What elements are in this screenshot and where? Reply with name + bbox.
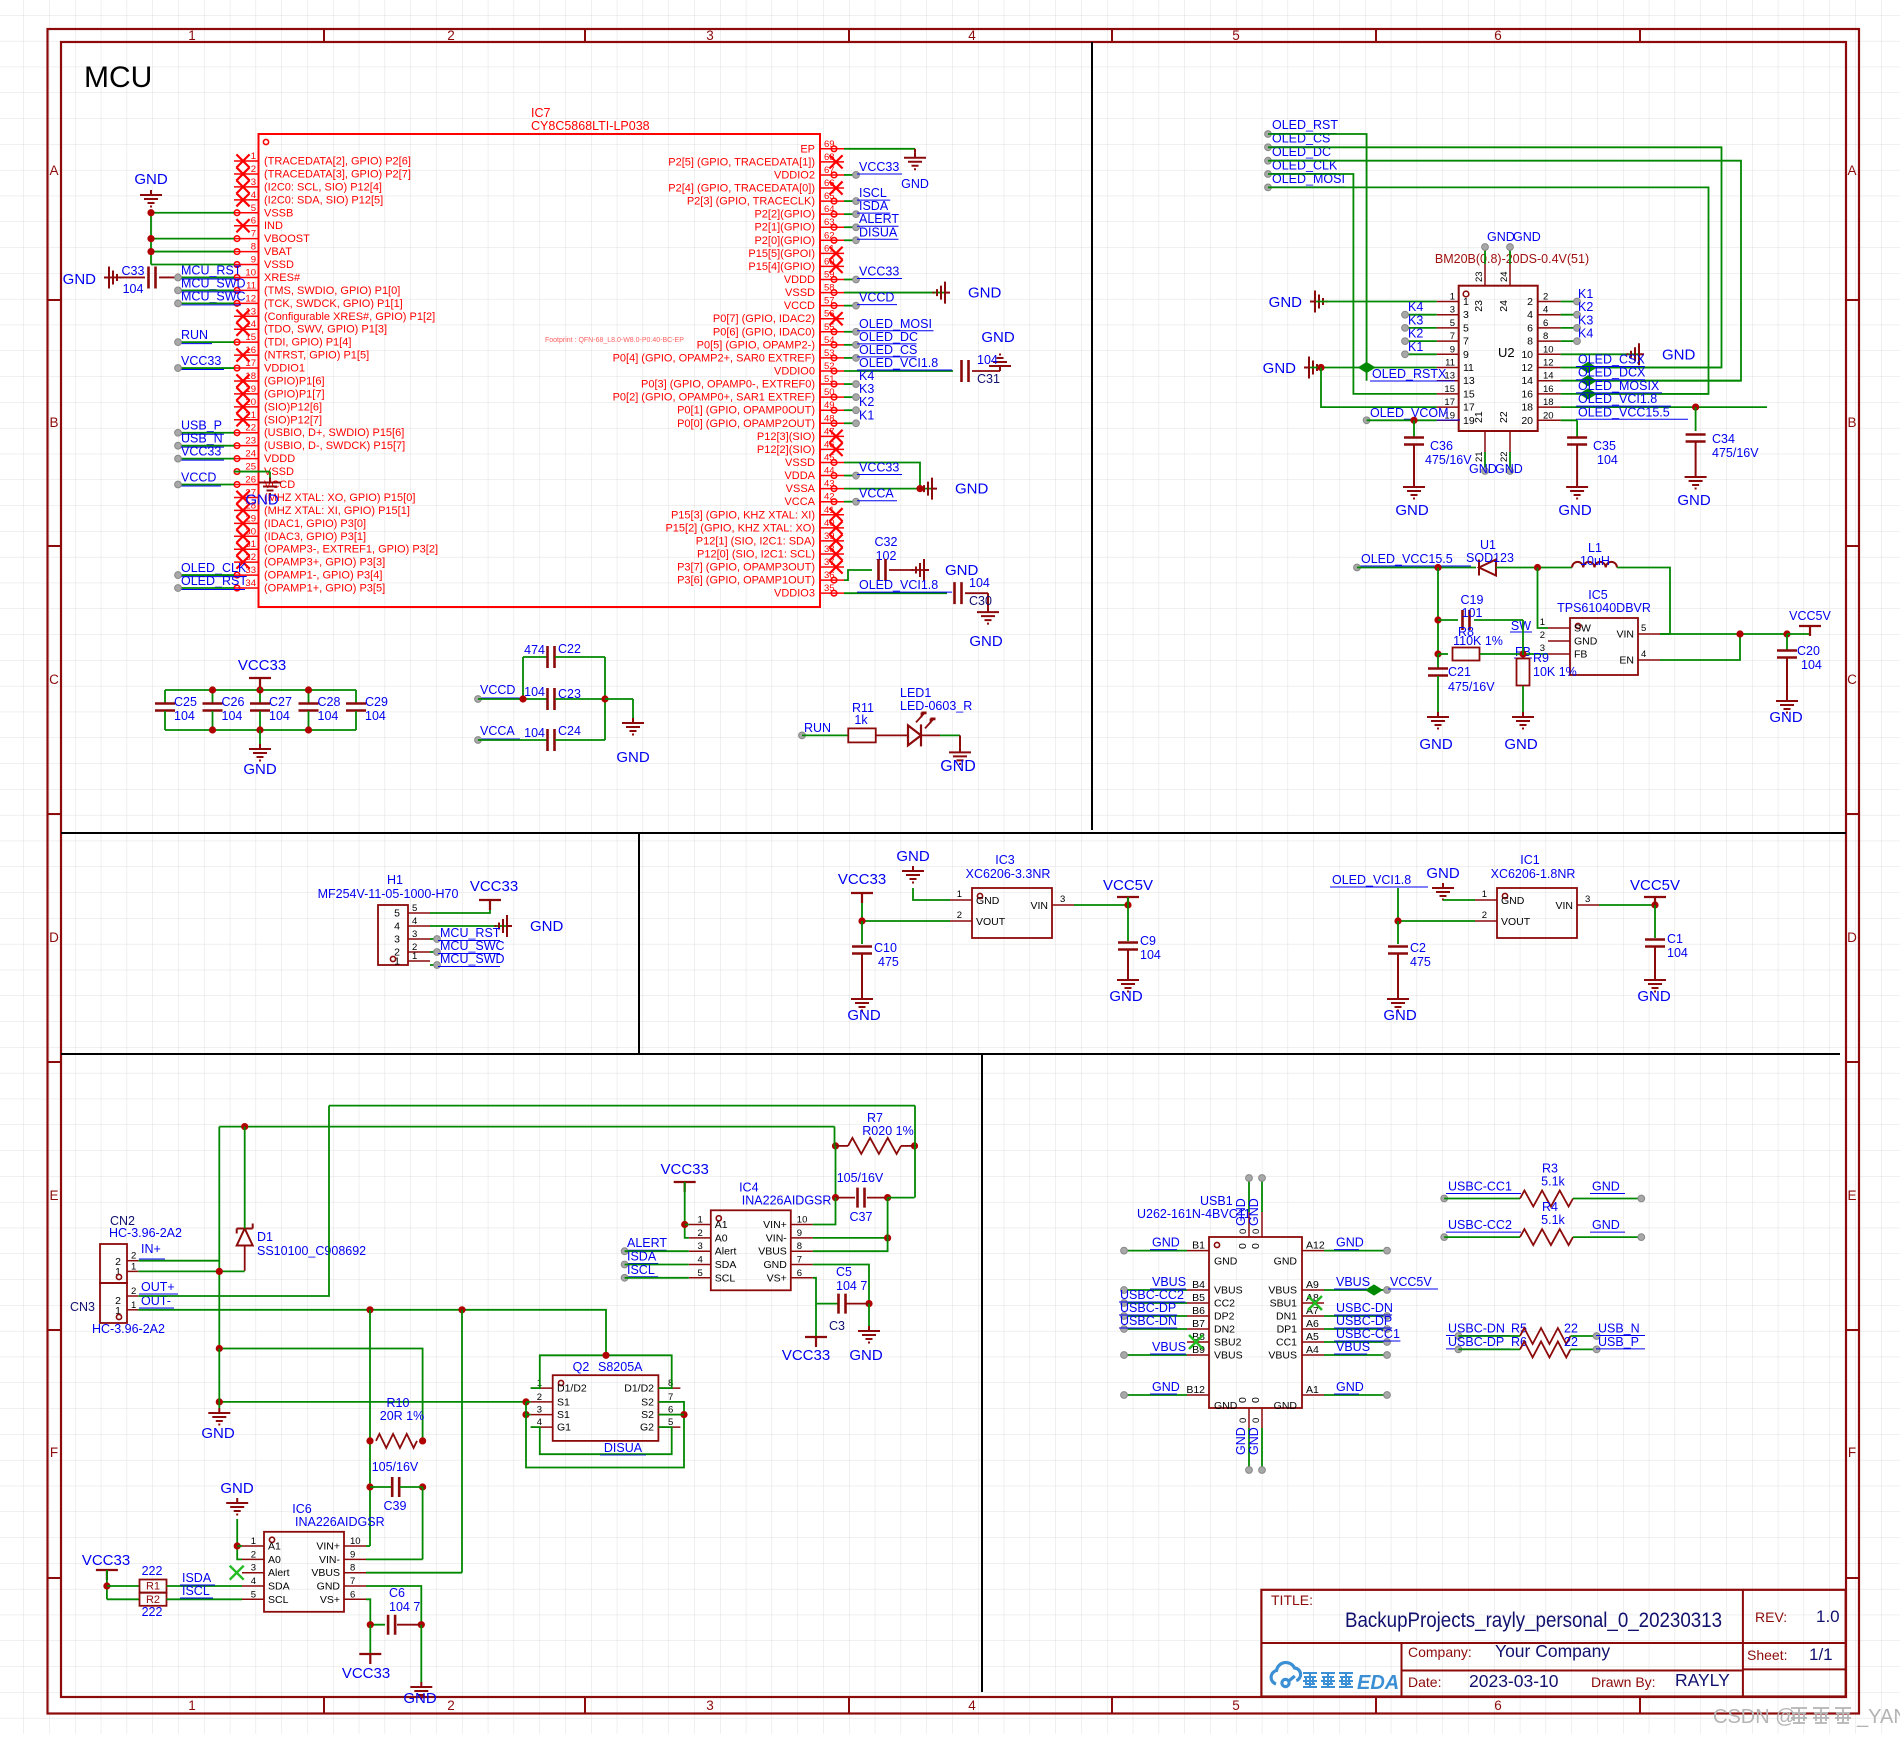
svg-text:B4: B4 (1192, 1279, 1205, 1291)
svg-text:104: 104 (977, 353, 998, 367)
svg-text:R4: R4 (1542, 1200, 1558, 1214)
svg-text:GND: GND (1419, 736, 1453, 753)
svg-text:VBUS: VBUS (758, 1246, 787, 1258)
svg-text:54: 54 (824, 335, 835, 346)
svg-text:IN+: IN+ (141, 1242, 161, 1256)
svg-text:15: 15 (1444, 384, 1455, 395)
svg-text:K2: K2 (1578, 300, 1593, 314)
svg-text:VCCA: VCCA (784, 496, 815, 508)
svg-text:OLED_CS: OLED_CS (859, 343, 917, 357)
svg-text:VCCD: VCCD (480, 683, 515, 697)
svg-text:20: 20 (1521, 415, 1533, 427)
svg-text:(OPAMP1-, GPIO) P3[4]: (OPAMP1-, GPIO) P3[4] (264, 570, 382, 582)
svg-text:13: 13 (1463, 375, 1475, 387)
svg-text:8: 8 (1543, 331, 1548, 342)
svg-text:59: 59 (824, 270, 835, 281)
svg-text:OLED_VCC15.5: OLED_VCC15.5 (1361, 552, 1453, 566)
svg-text:C1: C1 (1667, 932, 1683, 946)
svg-text:XRES#: XRES# (264, 272, 301, 284)
svg-text:9: 9 (1463, 349, 1469, 361)
svg-text:22: 22 (1564, 1335, 1578, 1349)
svg-text:TPS61040DBVR: TPS61040DBVR (1557, 601, 1651, 615)
svg-text:C35: C35 (1593, 439, 1616, 453)
svg-text:GND: GND (1274, 1400, 1298, 1412)
svg-text:RAYLY: RAYLY (1675, 1670, 1730, 1690)
svg-text:HC-3.96-2A2: HC-3.96-2A2 (109, 1226, 182, 1240)
svg-text:P0[0] (GPIO, OPAMP2OUT): P0[0] (GPIO, OPAMP2OUT) (677, 418, 815, 430)
svg-text:44: 44 (824, 466, 835, 477)
svg-text:5: 5 (698, 1268, 703, 1279)
svg-text:0: 0 (1251, 1418, 1262, 1423)
svg-text:GND: GND (1109, 988, 1143, 1005)
svg-text:18: 18 (1521, 402, 1533, 414)
svg-text:14: 14 (1543, 371, 1554, 382)
svg-text:VCC5V: VCC5V (1390, 1275, 1432, 1289)
svg-text:R9: R9 (1533, 651, 1549, 665)
svg-text:104: 104 (524, 726, 545, 740)
svg-text:GND: GND (1263, 360, 1297, 377)
svg-text:VCC33: VCC33 (181, 354, 221, 368)
svg-text:7: 7 (797, 1255, 802, 1266)
svg-text:P15[5](GPOI): P15[5](GPOI) (748, 248, 815, 260)
svg-text:XC6206-1.8NR: XC6206-1.8NR (1491, 867, 1576, 881)
svg-text:B5: B5 (1192, 1292, 1205, 1304)
svg-text:A1: A1 (1306, 1384, 1319, 1396)
svg-text:S2: S2 (641, 1396, 654, 1408)
svg-text:VIN+: VIN+ (316, 1541, 340, 1553)
svg-text:K4: K4 (1578, 327, 1593, 341)
svg-text:5: 5 (251, 203, 256, 214)
svg-text:MCU_RST: MCU_RST (440, 926, 501, 940)
svg-text:12: 12 (245, 293, 256, 304)
svg-text:P15[4](GPIO): P15[4](GPIO) (748, 261, 815, 273)
svg-text:GND: GND (968, 285, 1002, 302)
svg-text:B12: B12 (1186, 1384, 1205, 1396)
svg-text:Company:: Company: (1408, 1644, 1472, 1660)
svg-text:P2[2](GPIO): P2[2](GPIO) (754, 209, 815, 221)
svg-text:VDDIO0: VDDIO0 (774, 365, 815, 377)
svg-text:USB1: USB1 (1200, 1194, 1233, 1208)
svg-text:2: 2 (447, 1698, 455, 1713)
svg-text:5.1k: 5.1k (1541, 1213, 1565, 1227)
svg-text:D: D (49, 930, 59, 945)
svg-text:1: 1 (412, 951, 417, 962)
svg-text:DP2: DP2 (1214, 1311, 1235, 1323)
svg-text:475: 475 (878, 955, 899, 969)
svg-text:OLED_RSTX: OLED_RSTX (1372, 367, 1447, 381)
svg-text:VCCD: VCCD (181, 471, 216, 485)
svg-text:GND: GND (955, 481, 989, 498)
svg-text:VCC33: VCC33 (782, 1347, 830, 1364)
svg-text:C33: C33 (122, 264, 145, 278)
svg-text:10K 1%: 10K 1% (1533, 665, 1577, 679)
svg-text:3: 3 (698, 1241, 703, 1252)
svg-text:GND: GND (976, 895, 1000, 907)
svg-text:VCC33: VCC33 (82, 1552, 130, 1569)
svg-text:6: 6 (797, 1268, 802, 1279)
svg-text:101: 101 (1462, 606, 1483, 620)
svg-text:(GPIO)P1[6]: (GPIO)P1[6] (264, 375, 325, 387)
svg-text:GND: GND (1214, 1256, 1238, 1268)
svg-text:5: 5 (394, 908, 400, 920)
svg-text:U1: U1 (1480, 538, 1496, 552)
svg-text:GND: GND (1592, 1180, 1620, 1194)
svg-text:GND: GND (1234, 1427, 1248, 1455)
svg-text:F: F (50, 1445, 58, 1460)
svg-text:8: 8 (350, 1563, 355, 1574)
svg-text:475/16V: 475/16V (1425, 453, 1472, 467)
svg-text:Date:: Date: (1408, 1674, 1441, 1690)
svg-text:GND: GND (317, 1581, 341, 1593)
svg-text:22: 22 (1498, 411, 1510, 423)
svg-text:22: 22 (1564, 1322, 1578, 1336)
svg-text:5: 5 (1463, 322, 1469, 334)
svg-text:65: 65 (824, 191, 835, 202)
svg-text:104: 104 (269, 709, 290, 723)
svg-text:G1: G1 (557, 1422, 571, 1434)
svg-text:USBC-CC1: USBC-CC1 (1336, 1327, 1400, 1341)
svg-text:VIN: VIN (1030, 900, 1048, 912)
svg-text:VBUS: VBUS (1214, 1350, 1243, 1362)
svg-text:FB: FB (1574, 649, 1587, 661)
svg-text:1: 1 (251, 151, 256, 162)
svg-text:GND: GND (1501, 895, 1525, 907)
svg-text:GND: GND (847, 1007, 881, 1024)
svg-text:474: 474 (524, 643, 545, 657)
svg-text:D1: D1 (257, 1230, 273, 1244)
svg-text:HC-3.96-2A2: HC-3.96-2A2 (92, 1322, 165, 1336)
svg-text:1: 1 (1463, 296, 1469, 308)
svg-text:10: 10 (1543, 344, 1554, 355)
svg-text:OLED_VCI1.8: OLED_VCI1.8 (1332, 873, 1411, 887)
svg-text:VCC5V: VCC5V (1630, 877, 1680, 894)
svg-text:C29: C29 (365, 695, 388, 709)
svg-text:A6: A6 (1306, 1318, 1319, 1330)
svg-text:22: 22 (245, 423, 256, 434)
svg-text:A: A (1847, 163, 1856, 178)
svg-text:GND: GND (1769, 709, 1803, 726)
svg-text:2: 2 (1540, 630, 1545, 641)
svg-text:14: 14 (1521, 375, 1533, 387)
svg-text:K2: K2 (859, 395, 874, 409)
svg-text:4: 4 (1527, 309, 1533, 321)
svg-text:105/16V: 105/16V (837, 1171, 884, 1185)
svg-text:52: 52 (824, 361, 835, 372)
svg-text:C31: C31 (977, 372, 1000, 386)
svg-text:1: 1 (251, 1536, 256, 1547)
svg-text:D1/D2: D1/D2 (624, 1383, 654, 1395)
svg-text:GND: GND (403, 1690, 437, 1707)
svg-text:C20: C20 (1797, 644, 1820, 658)
svg-text:IND: IND (264, 220, 283, 232)
svg-text:GND: GND (896, 848, 930, 865)
svg-text:MCU_SWC: MCU_SWC (440, 939, 505, 953)
svg-text:2: 2 (251, 1549, 256, 1560)
svg-text:5: 5 (251, 1589, 256, 1600)
svg-text:CY8C5868LTI-LP038: CY8C5868LTI-LP038 (531, 119, 650, 133)
svg-text:18: 18 (1543, 397, 1554, 408)
svg-text:GND: GND (616, 749, 650, 766)
svg-text:XC6206-3.3NR: XC6206-3.3NR (966, 867, 1051, 881)
svg-text:C21: C21 (1448, 665, 1471, 679)
svg-text:3: 3 (1463, 309, 1469, 321)
svg-text:4: 4 (1641, 649, 1646, 660)
svg-text:(TDI, GPIO) P1[4]: (TDI, GPIO) P1[4] (264, 337, 351, 349)
svg-text:1: 1 (1540, 617, 1545, 628)
svg-text:RUN: RUN (181, 328, 208, 342)
svg-text:GND: GND (763, 1259, 787, 1271)
svg-text:OLED_VCI1.8: OLED_VCI1.8 (1578, 392, 1657, 406)
svg-text:Q2: Q2 (573, 1360, 590, 1374)
svg-text:C: C (49, 672, 59, 687)
svg-text:L1: L1 (1588, 541, 1602, 555)
svg-text:VBUS: VBUS (1214, 1285, 1243, 1297)
svg-text:CC2: CC2 (1214, 1298, 1235, 1310)
svg-text:MCU_SWD: MCU_SWD (440, 952, 505, 966)
svg-text:VBUS: VBUS (1152, 1275, 1186, 1289)
svg-text:4: 4 (1543, 305, 1548, 316)
svg-text:4: 4 (251, 1576, 256, 1587)
svg-text:(SIO)P12[7]: (SIO)P12[7] (264, 414, 322, 426)
svg-text:VBUS: VBUS (1268, 1350, 1297, 1362)
svg-text:0: 0 (1237, 1397, 1249, 1403)
svg-text:K3: K3 (1578, 313, 1593, 327)
svg-text:A5: A5 (1306, 1331, 1319, 1343)
svg-text:104: 104 (222, 709, 243, 723)
svg-text:MCU: MCU (84, 61, 152, 94)
svg-text:VSSD: VSSD (785, 457, 815, 469)
svg-text:(IDAC3, GPIO) P3[1]: (IDAC3, GPIO) P3[1] (264, 531, 366, 543)
svg-text:2: 2 (131, 1286, 136, 1297)
svg-text:Drawn By:: Drawn By: (1591, 1674, 1656, 1690)
svg-text:GND: GND (1487, 230, 1515, 244)
svg-text:6: 6 (1494, 1698, 1502, 1713)
svg-text:VCC33: VCC33 (859, 160, 899, 174)
svg-text:4: 4 (394, 921, 400, 933)
svg-text:BM20B(0.8)-20DS-0.4V(51): BM20B(0.8)-20DS-0.4V(51) (1435, 252, 1589, 266)
svg-text:ISCL: ISCL (627, 1263, 655, 1277)
svg-text:P0[3] (GPIO, OPAMP0-, EXTREF0): P0[3] (GPIO, OPAMP0-, EXTREF0) (641, 379, 815, 391)
svg-text:10: 10 (797, 1215, 808, 1226)
svg-text:GND: GND (1152, 1380, 1180, 1394)
svg-text:VCC33: VCC33 (859, 461, 899, 475)
svg-text:16: 16 (1543, 384, 1554, 395)
svg-text:VBUS: VBUS (311, 1567, 340, 1579)
svg-text:VCC5V: VCC5V (1103, 877, 1153, 894)
svg-text:475: 475 (1410, 955, 1431, 969)
svg-text:45: 45 (824, 452, 835, 463)
svg-text:E: E (49, 1188, 58, 1203)
svg-text:_YAN: _YAN (1856, 1706, 1900, 1728)
svg-text:VCCA: VCCA (480, 724, 515, 738)
svg-text:SS10100_C908692: SS10100_C908692 (257, 1244, 366, 1258)
svg-text:P12[1] (SIO, I2C1: SDA): P12[1] (SIO, I2C1: SDA) (696, 535, 815, 547)
svg-text:4: 4 (968, 1698, 976, 1713)
svg-text:VCCD: VCCD (784, 300, 815, 312)
svg-text:(OPAMP3-, EXTREF1, GPIO) P3[2]: (OPAMP3-, EXTREF1, GPIO) P3[2] (264, 544, 438, 556)
svg-text:55: 55 (824, 322, 835, 333)
svg-text:6: 6 (1543, 318, 1548, 329)
svg-text:P2[4] (GPIO, TRACEDATA[0]): P2[4] (GPIO, TRACEDATA[0]) (668, 183, 815, 195)
svg-text:DN2: DN2 (1214, 1324, 1235, 1336)
svg-text:(OPAMP3+, GPIO) P3[3]: (OPAMP3+, GPIO) P3[3] (264, 557, 385, 569)
svg-text:IC5: IC5 (1588, 588, 1608, 602)
svg-text:VDDD: VDDD (784, 274, 815, 286)
svg-text:USBC-CC2: USBC-CC2 (1120, 1288, 1184, 1302)
svg-text:USBC-DN: USBC-DN (1336, 1301, 1393, 1315)
svg-text:OLED_CSX: OLED_CSX (1578, 353, 1645, 367)
svg-text:C27: C27 (269, 695, 292, 709)
svg-text:K3: K3 (1408, 313, 1423, 327)
svg-text:GND: GND (243, 761, 277, 778)
svg-text:VDDIO2: VDDIO2 (774, 169, 815, 181)
svg-text:23: 23 (1473, 300, 1485, 312)
svg-text:5: 5 (1232, 1698, 1240, 1713)
svg-text:C22: C22 (558, 642, 581, 656)
svg-text:5: 5 (1641, 623, 1646, 634)
svg-text:K4: K4 (859, 369, 874, 383)
svg-text:(TMS, SWDIO, GPIO) P1[0]: (TMS, SWDIO, GPIO) P1[0] (264, 285, 400, 297)
svg-text:3: 3 (1450, 305, 1455, 316)
svg-text:S1: S1 (557, 1396, 570, 1408)
svg-text:(TRACEDATA[2], GPIO) P2[6]: (TRACEDATA[2], GPIO) P2[6] (264, 156, 411, 168)
svg-text:11: 11 (1445, 358, 1455, 369)
svg-text:USBC-CC1: USBC-CC1 (1448, 1180, 1512, 1194)
svg-text:GND: GND (1274, 1256, 1298, 1268)
svg-text:VDDA: VDDA (784, 470, 815, 482)
svg-text:R3: R3 (1542, 1162, 1558, 1176)
svg-text:1: 1 (131, 1300, 136, 1311)
svg-text:B: B (49, 415, 58, 430)
svg-text:2: 2 (698, 1228, 703, 1239)
svg-text:OLED_CLK: OLED_CLK (181, 561, 247, 575)
svg-text:A12: A12 (1306, 1240, 1325, 1252)
svg-text:P15[2] (GPIO, KHZ XTAL: XO): P15[2] (GPIO, KHZ XTAL: XO) (665, 522, 815, 534)
svg-text:A0: A0 (715, 1232, 728, 1244)
svg-text:DISUA: DISUA (859, 225, 898, 239)
svg-text:P0[1] (GPIO, OPAMP0OUT): P0[1] (GPIO, OPAMP0OUT) (677, 405, 815, 417)
svg-text:D: D (1847, 930, 1857, 945)
svg-text:104: 104 (969, 576, 990, 590)
svg-text:17: 17 (245, 358, 256, 369)
svg-text:2: 2 (447, 28, 455, 43)
svg-text:OLED_RST: OLED_RST (181, 574, 247, 588)
svg-text:SCL: SCL (268, 1594, 289, 1606)
svg-text:1: 1 (957, 889, 962, 900)
svg-text:REV:: REV: (1755, 1609, 1787, 1625)
svg-text:3: 3 (706, 28, 714, 43)
svg-text:GND: GND (1637, 988, 1671, 1005)
svg-text:(MHZ XTAL: XO, GPIO) P15[0]: (MHZ XTAL: XO, GPIO) P15[0] (264, 492, 415, 504)
svg-text:VSSD: VSSD (785, 287, 815, 299)
svg-text:VCCA: VCCA (859, 487, 894, 501)
svg-text:DISUA: DISUA (604, 1441, 643, 1455)
svg-text:53: 53 (824, 348, 835, 359)
svg-text:C26: C26 (222, 695, 245, 709)
svg-text:Sheet:: Sheet: (1747, 1647, 1787, 1663)
svg-text:GND: GND (530, 918, 564, 935)
svg-text:GND: GND (201, 1425, 235, 1442)
svg-text:9: 9 (350, 1549, 355, 1560)
svg-text:51: 51 (824, 374, 835, 385)
svg-text:(TDO, SWV, GPIO) P1[3]: (TDO, SWV, GPIO) P1[3] (264, 324, 387, 336)
svg-text:DN1: DN1 (1276, 1311, 1297, 1323)
svg-text:SBU2: SBU2 (1214, 1337, 1242, 1349)
svg-text:SDA: SDA (268, 1581, 290, 1593)
svg-text:C36: C36 (1430, 439, 1453, 453)
svg-text:P3[7] (GPIO, OPAMP3OUT): P3[7] (GPIO, OPAMP3OUT) (677, 562, 815, 574)
svg-text:GND: GND (245, 492, 279, 509)
svg-text:RUN: RUN (804, 721, 831, 735)
svg-text:VCC33: VCC33 (838, 871, 886, 888)
svg-text:OLED_VCOM: OLED_VCOM (1370, 406, 1449, 420)
svg-text:GND: GND (1214, 1400, 1238, 1412)
svg-text:C23: C23 (558, 687, 581, 701)
svg-text:15: 15 (1463, 388, 1475, 400)
svg-text:C9: C9 (1140, 934, 1156, 948)
svg-text:MCU_RST: MCU_RST (181, 263, 242, 277)
svg-text:104: 104 (365, 709, 386, 723)
svg-text:P0[5] (GPIO, OPAMP2-): P0[5] (GPIO, OPAMP2-) (697, 339, 815, 351)
svg-text:K1: K1 (859, 408, 874, 422)
svg-text:(USBIO, D-, SWDCK) P15[7]: (USBIO, D-, SWDCK) P15[7] (264, 440, 405, 452)
svg-text:2: 2 (251, 164, 256, 175)
svg-text:3: 3 (251, 177, 256, 188)
svg-text:C34: C34 (1712, 432, 1735, 446)
svg-text:(TCK, SWDCK, GPIO) P1[1]: (TCK, SWDCK, GPIO) P1[1] (264, 298, 403, 310)
svg-text:A1: A1 (268, 1541, 281, 1553)
svg-text:A4: A4 (1306, 1344, 1319, 1356)
svg-text:C: C (1847, 672, 1857, 687)
svg-text:IC7: IC7 (531, 106, 551, 120)
svg-text:4: 4 (412, 916, 417, 927)
svg-text:222: 222 (142, 1605, 163, 1619)
svg-text:3: 3 (706, 1698, 714, 1713)
svg-text:GND: GND (981, 329, 1015, 346)
svg-text:P15[3] (GPIO, KHZ XTAL: XI): P15[3] (GPIO, KHZ XTAL: XI) (671, 509, 815, 521)
svg-text:R1: R1 (146, 1581, 160, 1593)
svg-text:P0[7] (GPIO, IDAC2): P0[7] (GPIO, IDAC2) (713, 313, 815, 325)
svg-text:20R 1%: 20R 1% (380, 1409, 424, 1423)
svg-text:GND: GND (1662, 346, 1696, 363)
svg-text:24: 24 (1499, 271, 1510, 282)
svg-text:IC3: IC3 (995, 853, 1015, 867)
svg-text:VCC33: VCC33 (661, 1161, 709, 1178)
svg-text:475/16V: 475/16V (1448, 680, 1495, 694)
svg-text:C25: C25 (174, 695, 197, 709)
svg-text:K2: K2 (1408, 327, 1423, 341)
svg-text:58: 58 (824, 283, 835, 294)
svg-text:R020 1%: R020 1% (862, 1124, 913, 1138)
svg-text:69: 69 (824, 139, 835, 150)
svg-text:SDA: SDA (715, 1259, 737, 1271)
svg-text:ISCL: ISCL (859, 186, 887, 200)
svg-text:5.1k: 5.1k (1541, 1175, 1565, 1189)
svg-text:48: 48 (824, 413, 835, 424)
svg-text:62: 62 (824, 230, 835, 241)
svg-text:EN: EN (1619, 655, 1634, 667)
svg-text:GND: GND (849, 1347, 883, 1364)
svg-text:2: 2 (1543, 292, 1548, 303)
svg-text:K4: K4 (1408, 300, 1423, 314)
svg-text:VBUS: VBUS (1336, 1340, 1370, 1354)
svg-text:475/16V: 475/16V (1712, 446, 1759, 460)
svg-text:5: 5 (1232, 28, 1240, 43)
svg-text:USB_N: USB_N (1598, 1322, 1640, 1336)
svg-text:CSDN @: CSDN @ (1713, 1706, 1796, 1728)
svg-text:10: 10 (245, 267, 256, 278)
svg-text:57: 57 (824, 296, 835, 307)
